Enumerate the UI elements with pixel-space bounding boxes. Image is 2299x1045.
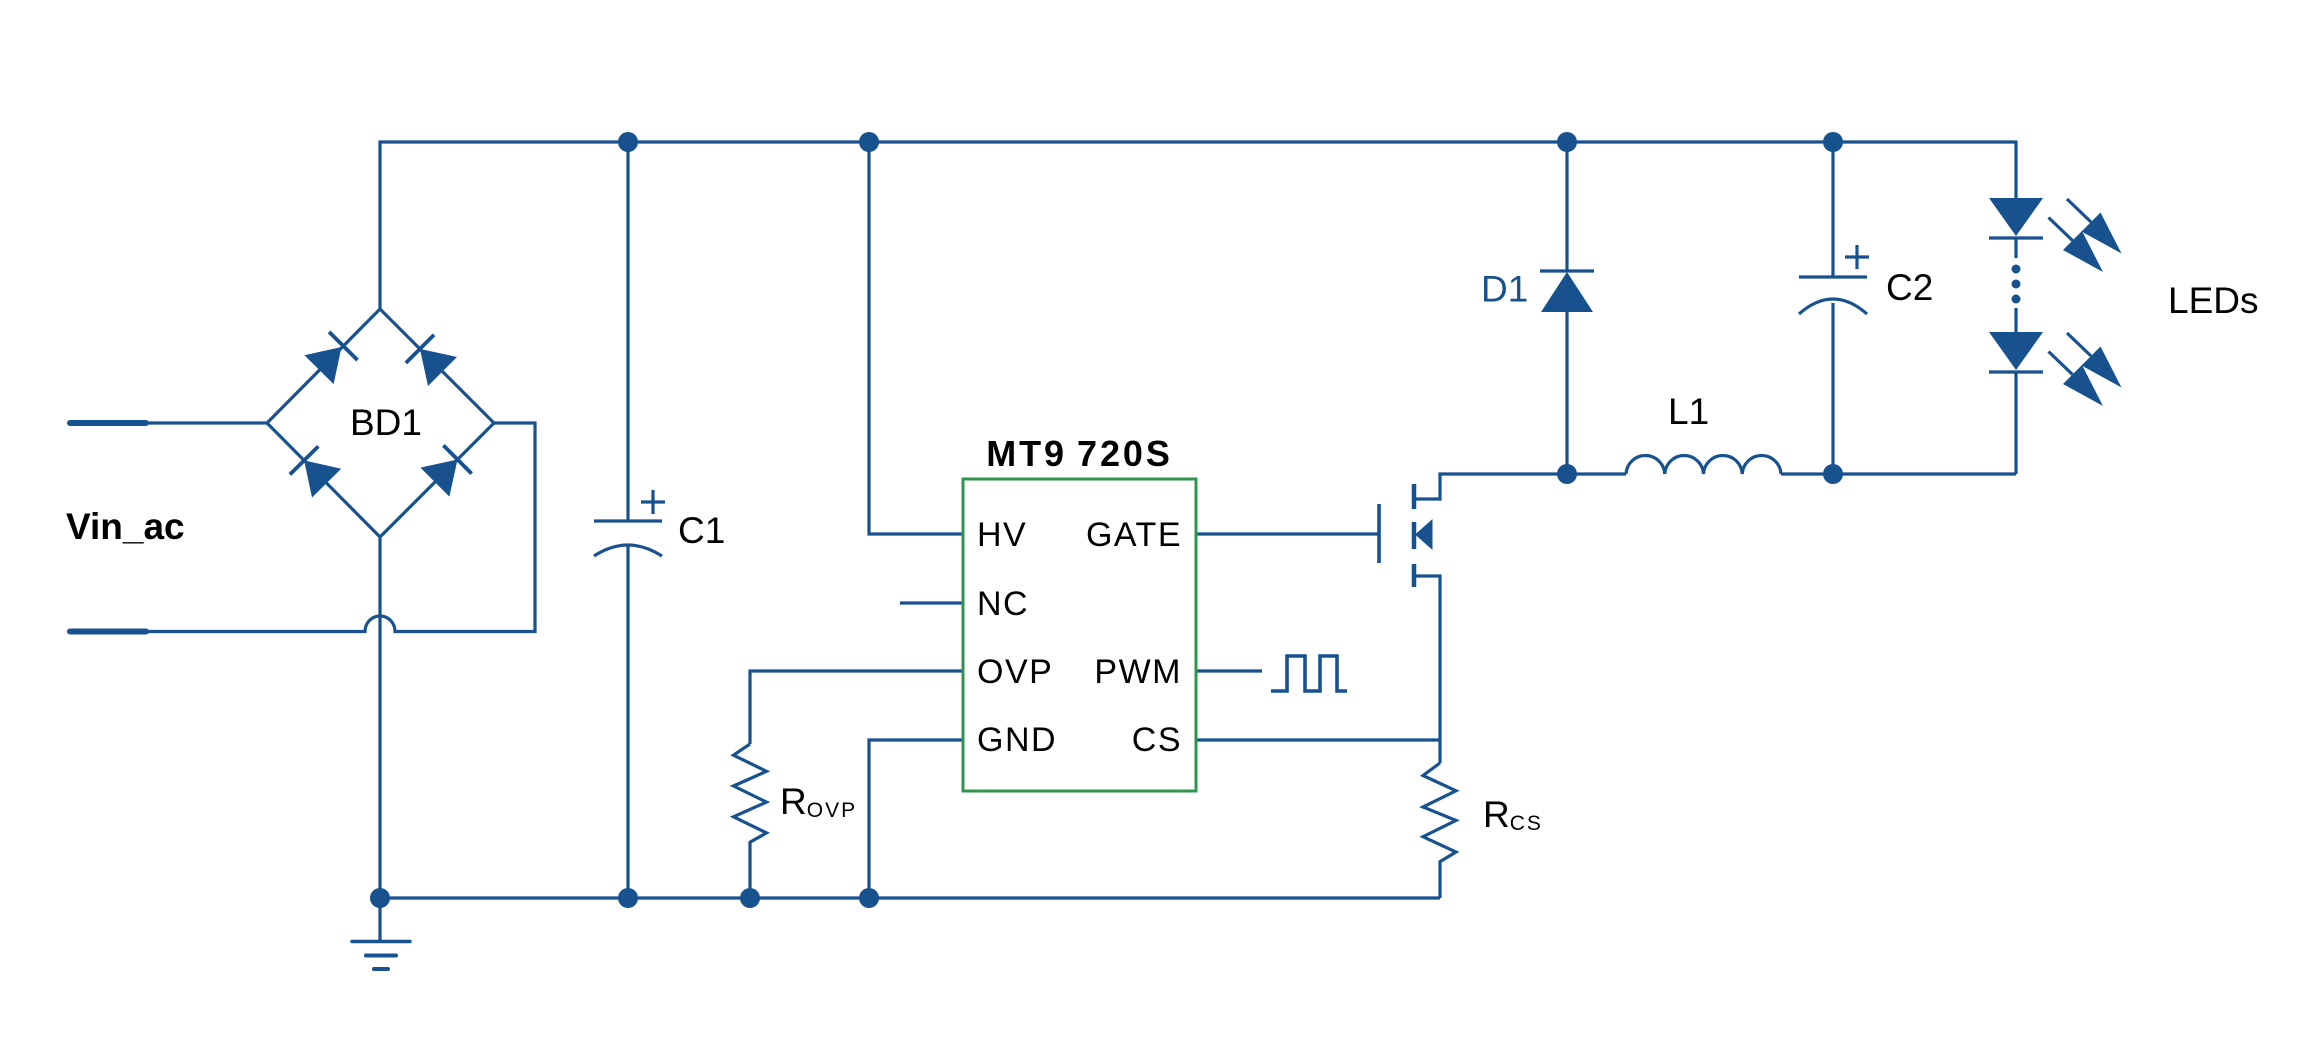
svg-text:Vin_ac: Vin_ac bbox=[66, 506, 185, 547]
svg-text:GATE: GATE bbox=[1086, 516, 1182, 554]
svg-text:LEDs: LEDs bbox=[2168, 280, 2258, 321]
svg-text:CS: CS bbox=[1132, 721, 1182, 759]
svg-text:HV: HV bbox=[977, 516, 1027, 554]
svg-text:PWM: PWM bbox=[1094, 653, 1182, 691]
svg-text:C1: C1 bbox=[678, 510, 725, 551]
svg-text:BD1: BD1 bbox=[350, 402, 422, 443]
svg-text:GND: GND bbox=[977, 721, 1057, 759]
svg-text:OVP: OVP bbox=[977, 653, 1053, 691]
svg-text:NC: NC bbox=[977, 585, 1029, 623]
svg-text:D1: D1 bbox=[1481, 269, 1528, 310]
svg-text:ROVP: ROVP bbox=[780, 781, 857, 822]
svg-text:MT9 720S: MT9 720S bbox=[986, 433, 1172, 474]
svg-text:L1: L1 bbox=[1668, 391, 1709, 432]
svg-text:RCS: RCS bbox=[1483, 794, 1543, 835]
svg-text:C2: C2 bbox=[1886, 267, 1933, 308]
